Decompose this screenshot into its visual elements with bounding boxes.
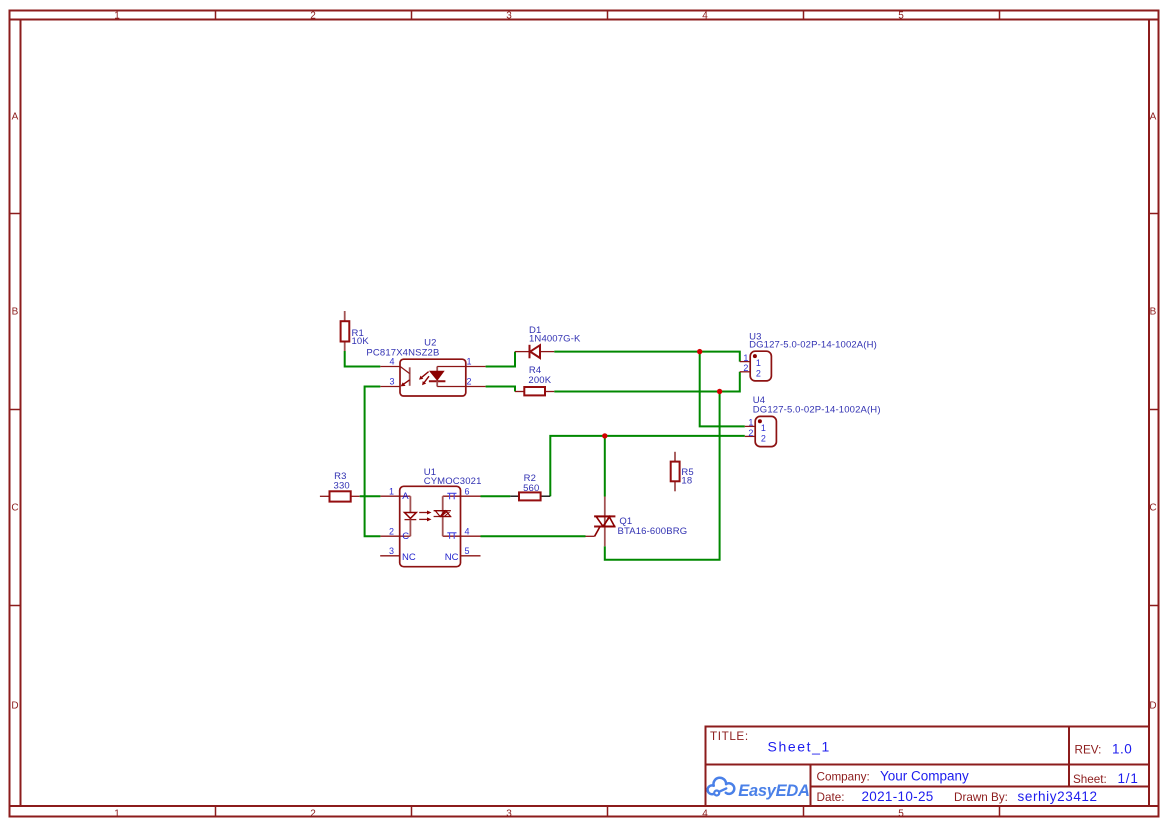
svg-text:C: C: [1149, 503, 1156, 514]
svg-text:A: A: [402, 491, 409, 502]
frame column tick bottom 4: [803, 806, 805, 817]
svg-text:2: 2: [756, 368, 761, 378]
U2 light arrows: [422, 372, 429, 378]
svg-text:NC: NC: [445, 552, 459, 563]
svg-text:serhiy23412: serhiy23412: [1018, 789, 1098, 804]
connector U4: [745, 416, 777, 446]
U1 pin name TT top: [447, 493, 456, 499]
U1 output triac: [442, 496, 444, 536]
svg-text:1/1: 1/1: [1118, 771, 1139, 786]
title block divider right of logo cell: [810, 765, 812, 807]
wire junction R4-net down to Q1 bottom: [605, 392, 720, 560]
svg-text:NC: NC: [402, 552, 416, 563]
frame column tick top 4: [803, 11, 805, 20]
svg-text:5: 5: [898, 10, 904, 21]
svg-text:A: A: [1150, 112, 1157, 123]
optocoupler U1: [380, 486, 480, 566]
frame row tick right A/B: [1149, 213, 1159, 215]
wire U1 pin6 to R2: [481, 495, 511, 497]
svg-text:3: 3: [506, 809, 512, 820]
wire U2 pin2 to R4: [486, 387, 515, 392]
U1 light arrows: [419, 512, 427, 514]
svg-text:1: 1: [467, 357, 472, 367]
svg-text:6: 6: [465, 487, 470, 497]
svg-text:Drawn By:: Drawn By:: [954, 791, 1008, 804]
wire D1 to U3 pin1: [554, 352, 740, 362]
svg-text:2: 2: [748, 428, 753, 438]
optocoupler U2: [380, 359, 485, 396]
U2 LED: [436, 367, 438, 372]
triac Q1: [586, 497, 616, 547]
frame row tick right B/C: [1149, 409, 1159, 411]
junction dot R4 net: [717, 389, 722, 394]
frame column tick bottom 5: [999, 806, 1001, 817]
svg-text:330: 330: [334, 480, 350, 491]
frame column tick top 2: [411, 11, 413, 20]
svg-text:D: D: [11, 701, 18, 712]
connector U3: [740, 351, 772, 381]
svg-text:Company:: Company:: [817, 771, 870, 784]
U1 inside pin line extensions: [400, 495, 411, 497]
svg-text:Sheet_1: Sheet_1: [768, 739, 831, 755]
svg-text:1.0: 1.0: [1112, 741, 1132, 756]
svg-text:3: 3: [389, 546, 394, 556]
title block outline: [706, 727, 1150, 807]
svg-text:2021-10-25: 2021-10-25: [862, 789, 934, 804]
resistor R2: [510, 492, 550, 500]
resistor R1: [341, 311, 350, 351]
svg-text:TITLE:: TITLE:: [710, 730, 749, 743]
frame column tick bottom 1: [215, 806, 217, 817]
U1 input LED: [409, 496, 411, 512]
svg-text:D: D: [1149, 701, 1156, 712]
resistor R5: [671, 452, 680, 492]
svg-text:EasyEDA: EasyEDA: [738, 782, 809, 800]
svg-text:CYMOC3021: CYMOC3021: [424, 476, 482, 487]
frame column tick top 3: [607, 11, 609, 20]
svg-text:PC817X4NSZ2B: PC817X4NSZ2B: [366, 348, 439, 359]
wire R4 to U3 pin2: [554, 372, 740, 392]
frame row tick left C/D: [10, 605, 21, 607]
frame inner border: [10, 19, 1159, 21]
svg-text:REV:: REV:: [1075, 743, 1102, 756]
svg-text:2: 2: [310, 10, 316, 21]
svg-text:BTA16-600BRG: BTA16-600BRG: [618, 526, 688, 537]
svg-text:2: 2: [389, 527, 394, 537]
svg-text:200K: 200K: [528, 375, 551, 386]
frame column tick bottom 2: [411, 806, 413, 817]
title block divider left of REV column: [1068, 727, 1070, 787]
title block divider under Company row: [811, 786, 1150, 788]
svg-text:560: 560: [523, 483, 539, 494]
svg-text:10K: 10K: [352, 336, 370, 347]
svg-text:DG127-5.0-02P-14-1002A(H): DG127-5.0-02P-14-1002A(H): [749, 340, 877, 351]
svg-text:B: B: [12, 307, 19, 318]
frame column tick top 5: [999, 11, 1001, 20]
frame row tick left A/B: [10, 213, 21, 215]
wire R3 to U1 pin1: [360, 495, 381, 497]
junction dot Q1 net: [602, 433, 607, 438]
svg-text:2: 2: [761, 433, 766, 443]
svg-text:2: 2: [310, 809, 316, 820]
svg-text:1N4007G-K: 1N4007G-K: [529, 333, 581, 344]
svg-text:C: C: [402, 531, 409, 542]
resistor R4: [515, 387, 554, 395]
svg-text:Sheet:: Sheet:: [1073, 773, 1107, 786]
svg-text:5: 5: [898, 809, 904, 820]
wire R2 up to U4 pin2: [550, 436, 745, 496]
svg-text:1: 1: [114, 809, 120, 820]
U2 phototransistor: [409, 367, 411, 386]
svg-text:A: A: [12, 112, 19, 123]
wire U1 pin4 to Q1 gate: [481, 535, 586, 537]
frame row tick right C/D: [1149, 605, 1159, 607]
wire U2 pin1 to D1: [486, 352, 515, 367]
svg-text:2: 2: [743, 363, 748, 373]
wire R1 to U2 pin4: [345, 351, 381, 367]
svg-text:1: 1: [748, 418, 753, 428]
svg-text:3: 3: [389, 377, 394, 387]
frame column tick top 1: [215, 11, 217, 20]
svg-text:2: 2: [467, 377, 472, 387]
svg-text:1: 1: [756, 358, 761, 368]
svg-text:DG127-5.0-02P-14-1002A(H): DG127-5.0-02P-14-1002A(H): [753, 405, 881, 416]
svg-text:4: 4: [702, 10, 708, 21]
svg-text:5: 5: [465, 546, 470, 556]
svg-text:1: 1: [114, 10, 120, 21]
EasyEDA logo cloud: [708, 778, 735, 796]
resistor R3: [320, 491, 360, 501]
svg-text:18: 18: [681, 475, 692, 486]
frame row tick left B/C: [10, 409, 21, 411]
svg-text:1: 1: [743, 353, 748, 363]
svg-text:4: 4: [465, 527, 470, 537]
svg-text:Date:: Date:: [817, 791, 845, 804]
wire junction down to Q1 top: [604, 436, 606, 497]
wire U2 pin3 to U1 pin2: [365, 387, 381, 537]
title block divider under TITLE row: [706, 764, 1150, 766]
svg-text:1: 1: [761, 423, 766, 433]
svg-text:Your Company: Your Company: [880, 769, 969, 784]
diode D1: [515, 345, 554, 359]
frame column tick bottom 3: [607, 806, 609, 817]
svg-text:4: 4: [702, 809, 708, 820]
svg-text:R4: R4: [529, 365, 541, 376]
svg-text:3: 3: [506, 10, 512, 21]
junction dot D1 net: [697, 349, 702, 354]
wire junction D1-net down to U4 pin1: [700, 352, 745, 427]
svg-text:C: C: [11, 503, 18, 514]
U1 pin name TT bottom: [447, 533, 456, 539]
svg-text:B: B: [1150, 307, 1157, 318]
svg-text:1: 1: [389, 487, 394, 497]
